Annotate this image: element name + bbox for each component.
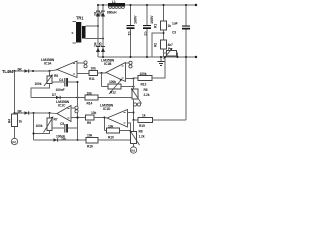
svg-text:R14: R14 — [87, 102, 93, 106]
svg-text:R2: R2 — [154, 43, 158, 47]
svg-text:1k: 1k — [19, 120, 23, 124]
svg-text:D5: D5 — [99, 42, 103, 46]
svg-text:680uH: 680uH — [107, 11, 117, 15]
svg-text:R4: R4 — [8, 119, 12, 123]
svg-text:R6: R6 — [144, 88, 148, 92]
svg-text:D1: D1 — [94, 11, 98, 15]
svg-text:R8: R8 — [139, 130, 143, 134]
svg-text:160V: 160V — [150, 15, 154, 24]
svg-text:C4: C4 — [59, 78, 63, 82]
svg-text:TR1: TR1 — [76, 16, 84, 21]
svg-text:D8: D8 — [62, 137, 66, 141]
svg-text:R13: R13 — [141, 83, 147, 87]
svg-text:IC1A: IC1A — [44, 61, 52, 65]
svg-text:R1: R1 — [154, 24, 158, 28]
svg-text:R10: R10 — [108, 136, 114, 140]
svg-text:D7: D7 — [52, 93, 56, 97]
svg-text:R15: R15 — [139, 124, 145, 128]
svg-text:2.2k: 2.2k — [144, 93, 150, 97]
svg-text:1uF: 1uF — [172, 22, 178, 26]
svg-text:R9: R9 — [87, 121, 91, 125]
svg-text:TL494: TL494 — [2, 69, 14, 74]
svg-text:R12: R12 — [110, 91, 116, 95]
svg-text:C2: C2 — [144, 32, 148, 36]
svg-text:1.2k: 1.2k — [139, 135, 145, 139]
svg-text:IC1B: IC1B — [104, 62, 112, 66]
svg-text:10k: 10k — [87, 134, 92, 138]
svg-text:100k: 100k — [109, 80, 116, 84]
svg-text:100k: 100k — [140, 72, 147, 76]
svg-text:D4: D4 — [94, 42, 98, 46]
svg-text:10k: 10k — [91, 111, 96, 115]
svg-text:C1: C1 — [127, 32, 131, 36]
svg-text:10k: 10k — [91, 67, 96, 71]
svg-text:160V: 160V — [134, 15, 138, 24]
svg-text:(A): (A) — [12, 140, 16, 144]
svg-text:R5: R5 — [54, 74, 58, 78]
svg-text:1k: 1k — [142, 114, 146, 118]
svg-text:S: S — [72, 31, 74, 35]
svg-text:C5: C5 — [60, 122, 64, 126]
svg-text:R7: R7 — [54, 118, 58, 122]
svg-text:100k: 100k — [36, 124, 43, 128]
svg-text:IC1C: IC1C — [58, 104, 66, 108]
svg-text:100nF: 100nF — [56, 88, 65, 92]
svg-text:R11: R11 — [89, 77, 95, 81]
svg-text:1k: 1k — [168, 24, 172, 28]
svg-text:D2: D2 — [99, 11, 103, 15]
svg-text:10k: 10k — [108, 125, 113, 129]
svg-text:IC1D: IC1D — [103, 107, 111, 111]
svg-text:10k: 10k — [87, 92, 92, 96]
svg-text:100k: 100k — [35, 82, 42, 86]
svg-text:R16: R16 — [87, 145, 93, 149]
svg-text:(A): (A) — [131, 148, 135, 152]
svg-text:C3: C3 — [172, 31, 176, 35]
